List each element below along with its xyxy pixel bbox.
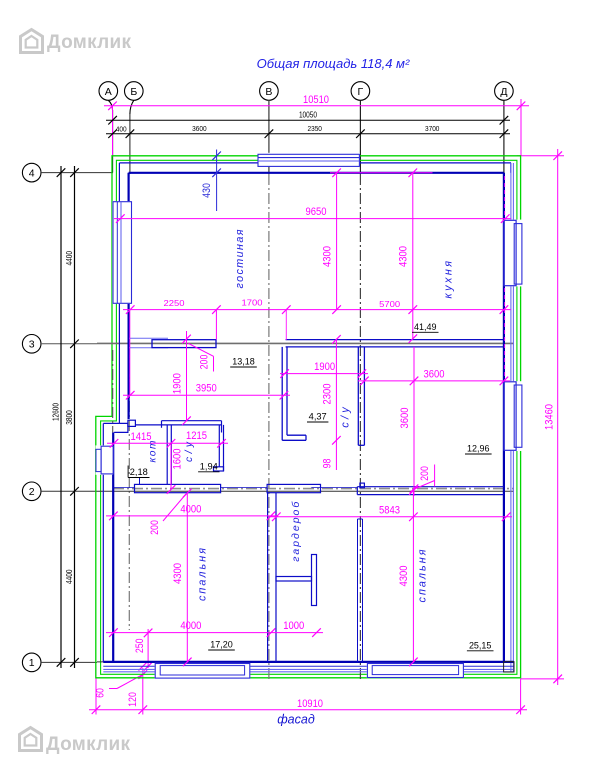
window boiler room bump <box>96 445 114 474</box>
axis row 1 line inside plan <box>97 661 514 663</box>
svg-text:кот: кот <box>147 440 158 463</box>
dimension 250 bottom-left <box>144 629 153 671</box>
svg-text:3: 3 <box>29 339 35 351</box>
svg-text:5843: 5843 <box>379 504 400 516</box>
wall left upper outer face <box>118 163 120 202</box>
wall right inner face thick <box>503 173 505 662</box>
wall axis-3 left segments <box>129 338 216 347</box>
svg-text:98: 98 <box>321 459 333 469</box>
extension line x=130 between dims <box>129 310 131 396</box>
svg-text:1900: 1900 <box>172 373 184 394</box>
svg-text:1,94: 1,94 <box>200 461 218 471</box>
green boundary outer <box>96 156 521 678</box>
wall left lower inner face thick <box>112 432 114 662</box>
svg-text:2300: 2300 <box>321 384 333 405</box>
wardrobe fixture <box>276 555 317 606</box>
svg-text:1: 1 <box>29 657 35 669</box>
dimension 4300 bedroom-2 vertical <box>409 486 418 666</box>
window right kitchen <box>504 220 523 287</box>
svg-text:2: 2 <box>29 486 35 498</box>
wall boiler/bathroom small top band <box>162 421 222 433</box>
wall bottom sheathing lines <box>103 665 514 667</box>
svg-text:4400: 4400 <box>65 569 74 584</box>
svg-text:4000: 4000 <box>180 620 201 632</box>
svg-text:1000: 1000 <box>283 620 304 632</box>
svg-text:4300: 4300 <box>322 246 334 267</box>
svg-text:В: В <box>265 86 272 98</box>
axis line row 4 <box>41 172 113 174</box>
axis Б dash-dot inside plan <box>128 344 130 630</box>
dimension 9650 <box>114 176 511 380</box>
window bottom bedroom-1 <box>155 663 251 679</box>
svg-text:4300: 4300 <box>172 563 184 584</box>
dimension 120 bottom-left <box>139 662 148 715</box>
axis line В <box>268 100 270 174</box>
dimension 4000 upper bedroom-1 <box>106 512 278 521</box>
svg-text:4000: 4000 <box>180 504 201 516</box>
svg-text:4,37: 4,37 <box>309 412 327 422</box>
svg-text:13,18: 13,18 <box>232 357 255 367</box>
svg-text:Домклик: Домклик <box>47 32 131 53</box>
svg-text:12600: 12600 <box>52 402 61 421</box>
watermark Домклик bottom-left <box>20 728 42 751</box>
svg-text:200: 200 <box>199 355 211 370</box>
dimension 10910 bottom <box>89 666 527 715</box>
wall wardrobe right divider <box>358 519 363 662</box>
dimension 200 bedroom right leader <box>415 481 435 490</box>
axis А dash-dot lower <box>112 350 114 432</box>
wall axis-2 segments <box>113 478 504 495</box>
axis circle В <box>260 82 279 101</box>
dimension 4300 bedroom-1 vertical <box>183 489 192 667</box>
dimension 3950 <box>123 391 290 400</box>
axis В dash-dot inside plan <box>268 174 270 680</box>
extension line x=286 <box>285 310 287 340</box>
axis circle 4 <box>22 163 41 182</box>
svg-text:17,20: 17,20 <box>210 640 233 650</box>
wall wardrobe left <box>268 493 276 662</box>
svg-text:гардероб: гардероб <box>290 501 302 562</box>
svg-text:Общая площадь 118,4 м²: Общая площадь 118,4 м² <box>257 56 410 71</box>
svg-text:10510: 10510 <box>303 94 329 106</box>
svg-text:Д: Д <box>500 86 507 98</box>
svg-text:9650: 9650 <box>306 206 327 218</box>
window bottom bedroom-2 <box>367 663 464 678</box>
axis circle 2 <box>22 482 41 501</box>
wall top outer face <box>119 163 511 173</box>
svg-text:3800: 3800 <box>65 410 74 425</box>
dimension 13460 right <box>517 149 564 685</box>
svg-text:10910: 10910 <box>297 698 323 710</box>
dimension 1600 vertical <box>167 443 176 494</box>
svg-text:1900: 1900 <box>314 361 335 373</box>
wall boiler/bathroom divider <box>167 425 171 485</box>
dimension 98 <box>335 440 337 470</box>
axis line Д <box>503 100 505 174</box>
svg-text:25,15: 25,15 <box>469 640 492 650</box>
area label underlines <box>128 332 493 651</box>
svg-text:А: А <box>105 86 112 98</box>
area label 41,49 <box>130 322 492 650</box>
svg-text:400: 400 <box>116 124 127 133</box>
svg-text:Домклик: Домклик <box>46 734 130 755</box>
dimension 10510 magenta top <box>104 99 529 156</box>
axis line Б <box>129 114 131 174</box>
dimension 12600 left <box>57 166 66 668</box>
axis circle А <box>99 82 118 110</box>
svg-text:с/у: с/у <box>184 441 195 462</box>
svg-text:гостиная: гостиная <box>234 229 246 288</box>
axis row 2 line inside plan <box>97 490 514 492</box>
svg-text:1600: 1600 <box>171 449 183 470</box>
svg-text:120: 120 <box>127 692 139 707</box>
wall top inner face thick <box>129 172 504 174</box>
svg-text:13460: 13460 <box>544 404 556 430</box>
svg-text:10050: 10050 <box>299 111 318 120</box>
axis circle Б <box>125 82 144 114</box>
wall bathroom central <box>282 347 364 445</box>
svg-text:2,18: 2,18 <box>130 467 148 477</box>
svg-text:41,49: 41,49 <box>414 322 437 332</box>
wall left lower outer face <box>102 423 104 446</box>
wall jamb at axis Г row 2 <box>360 483 365 488</box>
svg-text:430: 430 <box>201 183 213 198</box>
axis Г dash-dot inside plan <box>359 174 361 680</box>
dimension chain 2250/1700/5700 <box>123 305 511 314</box>
wall right sheathing lines <box>510 163 512 672</box>
window right bedroom <box>504 381 523 451</box>
axis line А <box>112 110 114 173</box>
dimension chain 400/3600/2350/3700 black <box>106 129 510 138</box>
wall boiler jog top <box>103 420 161 432</box>
axis circle 3 <box>22 335 41 354</box>
dimension chain 4400/3800/4400 left <box>70 166 79 668</box>
svg-text:4300: 4300 <box>398 246 410 267</box>
dimension 1900 hall vertical <box>182 331 191 425</box>
svg-text:1215: 1215 <box>186 430 207 442</box>
svg-text:12,96: 12,96 <box>467 444 490 454</box>
svg-text:1700: 1700 <box>242 297 263 307</box>
svg-text:2250: 2250 <box>164 298 185 308</box>
dimension line along top wall inner face <box>330 172 433 174</box>
watermark Домклик top-left <box>21 30 43 53</box>
svg-text:Г: Г <box>358 86 364 98</box>
svg-text:200: 200 <box>419 466 431 481</box>
axis line row 2 <box>41 490 97 492</box>
svg-text:200: 200 <box>149 520 161 535</box>
dimension 430 blue wall thickness <box>212 150 221 212</box>
axis circle Д <box>495 82 514 101</box>
dimension 60 leader bottom-left <box>117 675 143 689</box>
svg-text:3600: 3600 <box>192 124 207 133</box>
svg-text:3950: 3950 <box>196 383 217 395</box>
dimension 2300 bathroom vertical <box>332 335 341 445</box>
svg-text:3600: 3600 <box>424 369 445 381</box>
axis circle Г <box>351 82 370 101</box>
dimension 200 bedroom-1 leader <box>163 494 186 521</box>
svg-text:3600: 3600 <box>399 408 411 429</box>
svg-text:4300: 4300 <box>398 566 410 587</box>
svg-text:4: 4 <box>29 167 35 179</box>
axis line Г <box>359 100 361 174</box>
dimension 200 hall stub and leader <box>189 344 214 357</box>
dimension 1900 bathroom <box>280 369 368 378</box>
wall bathroom small right <box>214 425 224 471</box>
dimension 5843 <box>270 513 512 522</box>
axis row 3 dash-dot inside plan <box>97 342 514 344</box>
svg-text:фасад: фасад <box>277 713 315 727</box>
dimension 3600 bedroom horizontal <box>358 377 510 386</box>
svg-text:250: 250 <box>134 638 146 653</box>
wall left upper inner face thick <box>128 173 130 419</box>
dimension 4000/1000 lower <box>106 628 323 637</box>
svg-text:с/у: с/у <box>339 406 351 428</box>
svg-text:2350: 2350 <box>307 124 322 133</box>
jamb black bottom-right corner <box>504 662 514 672</box>
svg-text:4400: 4400 <box>65 251 74 266</box>
window top В-Г <box>258 153 360 167</box>
svg-text:3700: 3700 <box>425 124 440 133</box>
svg-text:5700: 5700 <box>379 299 400 309</box>
axis line row 3 <box>41 343 97 345</box>
dimension 4300 living right <box>409 169 418 344</box>
wall bottom top face thick <box>103 661 514 663</box>
svg-text:Б: Б <box>130 86 137 98</box>
svg-text:60: 60 <box>95 688 107 698</box>
wall axis-3 right segment <box>286 340 504 347</box>
dimension 1415/1215 <box>107 439 228 448</box>
axis circle 1 <box>22 653 41 672</box>
axis line row 1 <box>41 661 97 663</box>
window left living room <box>112 201 132 304</box>
dimension 3600 bedroom vertical <box>410 347 419 496</box>
dimension 10050 black <box>106 116 510 125</box>
dimension 4300 living left <box>332 169 341 314</box>
green boundary inner <box>101 160 517 674</box>
